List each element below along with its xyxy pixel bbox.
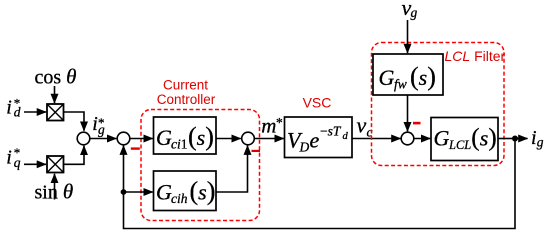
wire feedback branch to Gcih	[124, 191, 153, 193]
node ig junction dot	[512, 136, 518, 142]
svg-text:G: G	[434, 126, 450, 151]
svg-text:g: g	[537, 135, 544, 150]
block Gfw	[373, 54, 443, 95]
wire cos theta down arrow	[54, 86, 56, 103]
wire vg down arrow	[407, 20, 409, 53]
svg-text:e: e	[310, 128, 320, 153]
node vc label	[357, 113, 373, 140]
svg-text:s: s	[419, 65, 428, 90]
label Current Controller	[157, 77, 216, 107]
block GLCL	[431, 118, 498, 161]
svg-text:i: i	[6, 97, 12, 119]
svg-text:d: d	[14, 105, 21, 120]
svg-text:VSC: VSC	[303, 95, 332, 111]
block Gci1	[154, 117, 217, 154]
wire GLCL to output	[498, 138, 514, 140]
minus sign at S2	[131, 147, 140, 149]
svg-text:sin θ: sin θ	[35, 180, 74, 204]
summing junction S2	[117, 132, 130, 145]
svg-text:): )	[207, 177, 216, 206]
summing junction S1	[77, 132, 90, 145]
summing junction S3	[242, 132, 255, 145]
svg-text:s: s	[198, 180, 207, 205]
wire sum3 to VSC	[255, 138, 284, 140]
wire multiplier X2 to sum1	[64, 146, 85, 165]
wire to ig label arrow	[515, 138, 528, 140]
node iq* label	[6, 145, 20, 170]
node m* label	[261, 113, 283, 137]
wire sum4 to GLCL	[414, 138, 430, 140]
svg-text:Current: Current	[163, 77, 208, 92]
multiplier X2	[47, 156, 64, 173]
svg-text:*: *	[276, 115, 283, 130]
block Gcih	[154, 171, 217, 211]
svg-text:d: d	[343, 131, 349, 142]
svg-text:LCL Filter: LCL Filter	[445, 48, 506, 64]
svg-text:(: (	[188, 122, 197, 151]
svg-text:v: v	[357, 113, 367, 138]
svg-text:): )	[205, 122, 214, 151]
current controller dashed box	[141, 110, 260, 221]
node ig* label	[92, 113, 105, 137]
node vg label	[402, 0, 418, 20]
svg-text:m: m	[261, 113, 276, 137]
LCL filter dashed box	[372, 43, 505, 166]
svg-text:cos θ: cos θ	[35, 65, 77, 89]
wire Gcih to sum3	[216, 146, 248, 192]
wire Gci1 to sum3	[216, 138, 241, 140]
svg-text:): )	[427, 62, 436, 91]
svg-text:): )	[488, 125, 496, 152]
svg-text:LCL: LCL	[448, 138, 471, 152]
wire Gfw to sum4	[407, 95, 409, 131]
node feedback branch dot	[121, 189, 127, 195]
svg-text:fw: fw	[394, 77, 407, 92]
svg-text:G: G	[156, 125, 172, 150]
svg-text:G: G	[379, 65, 395, 90]
svg-text:−sT: −sT	[320, 124, 342, 139]
svg-text:(: (	[410, 62, 419, 91]
wire iq* input arrow	[24, 163, 46, 165]
wire id* input arrow	[24, 111, 46, 113]
wire sum2 to Gci1	[130, 138, 153, 140]
wire multiplier X1 to sum1	[64, 112, 85, 131]
wire sum1 to sum2	[90, 138, 116, 140]
svg-text:q: q	[14, 155, 21, 170]
minus sign at S3	[252, 150, 261, 152]
svg-text:s: s	[197, 125, 206, 150]
node id* label	[6, 95, 20, 119]
svg-text:(: (	[190, 177, 199, 206]
svg-text:(: (	[471, 125, 479, 152]
minus sign at S4	[413, 122, 421, 125]
block VSC VD e^-sTd	[285, 117, 353, 158]
svg-text:g: g	[98, 122, 105, 137]
svg-text:i: i	[531, 127, 537, 149]
svg-text:g: g	[411, 5, 418, 20]
summing junction S4	[401, 132, 414, 145]
svg-text:Controller: Controller	[157, 92, 216, 107]
node ig label	[531, 127, 544, 150]
wire feedback from ig to sum2	[124, 139, 516, 229]
svg-text:ci1: ci1	[171, 137, 188, 152]
svg-text:s: s	[480, 126, 489, 151]
svg-text:i: i	[6, 146, 12, 168]
svg-text:D: D	[299, 140, 310, 155]
wire sin theta up arrow	[54, 174, 56, 200]
wire VSC to sum4	[352, 138, 401, 140]
svg-text:cih: cih	[171, 191, 188, 206]
multiplier X1	[47, 104, 64, 121]
svg-text:G: G	[156, 180, 172, 205]
